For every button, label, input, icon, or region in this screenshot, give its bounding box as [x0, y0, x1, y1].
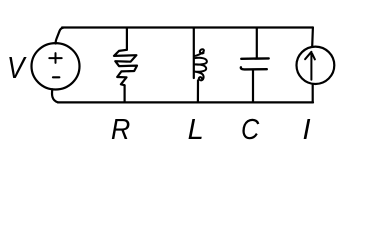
wire top rail [62, 26, 313, 28]
wire top-left corner into V [56, 28, 64, 44]
capacitor C bottom plate [241, 67, 267, 69]
label V [7, 50, 25, 86]
current source arrow [305, 52, 315, 80]
wire top rail right corner into I [311, 28, 314, 47]
voltage source plus sign [49, 53, 61, 63]
label L [188, 114, 204, 147]
voltage source minus sign [53, 76, 59, 78]
resistor R squiggle [114, 50, 137, 85]
wire L top lead [193, 29, 195, 78]
inductor L loops [194, 49, 207, 80]
voltage source V1 circle [32, 43, 80, 89]
wire L bottom lead [197, 80, 199, 102]
wire bottom rail [58, 101, 313, 103]
current source I1 circle [297, 47, 335, 84]
wire C top lead [256, 29, 258, 58]
label C [241, 114, 259, 147]
label I [303, 114, 311, 147]
wire I bottom lead [312, 84, 314, 102]
wire C bottom lead [252, 70, 254, 103]
capacitor C top plate [241, 57, 268, 60]
wire R bottom lead [123, 85, 125, 102]
wire V bottom lead [52, 89, 58, 102]
label R [111, 114, 130, 147]
wire R top lead [126, 29, 128, 50]
